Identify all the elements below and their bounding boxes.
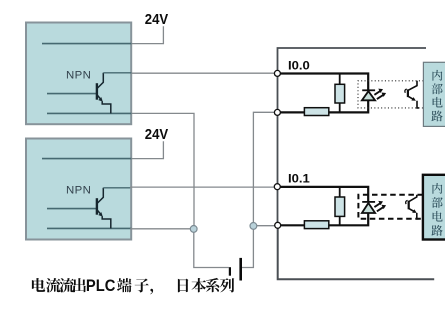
svg-text:NPN: NPN [66, 184, 91, 196]
svg-text:24V: 24V [145, 127, 169, 143]
svg-text:I0.1: I0.1 [288, 174, 310, 186]
svg-text:PLC: PLC [86, 276, 116, 295]
svg-text:24V: 24V [145, 12, 169, 28]
svg-text:NPN: NPN [66, 69, 91, 81]
svg-text:I0.0: I0.0 [288, 60, 310, 72]
